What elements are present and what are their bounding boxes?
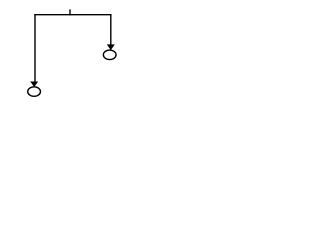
node: right ellipse	[103, 50, 116, 60]
wire: left branch vertical	[34, 14, 36, 82]
node: left ellipse	[28, 87, 41, 97]
wire: horizontal connector bar	[34, 14, 111, 16]
arrowhead: right branch	[108, 45, 115, 50]
arrowhead: left branch	[31, 82, 38, 87]
wire: root stub (top center tick)	[69, 9, 71, 15]
wire: right branch vertical	[110, 14, 112, 45]
